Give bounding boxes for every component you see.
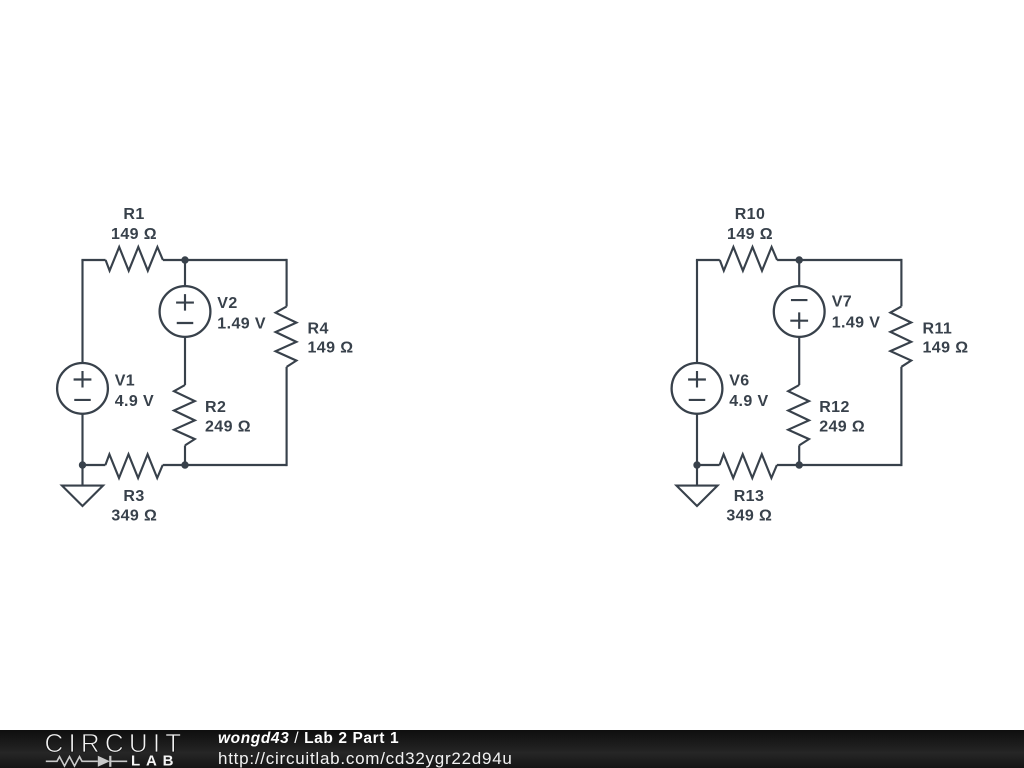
svg-text:149 Ω: 149 Ω [727, 226, 773, 243]
wire mid lower [798, 445, 800, 465]
footer url line [218, 749, 513, 768]
wire left upper [696, 260, 698, 363]
logo diode [98, 755, 110, 766]
node dot bottom-mid [181, 461, 188, 468]
voltage source V2 [160, 286, 211, 337]
CircuitLab logo [44, 731, 184, 768]
voltage source V1 [57, 363, 108, 414]
node dot top [181, 256, 188, 263]
wire top rail right of R10 [777, 259, 901, 261]
svg-text:249 Ω: 249 Ω [819, 419, 865, 436]
svg-text:4.9 V: 4.9 V [115, 393, 154, 410]
footer bar [0, 730, 1024, 768]
resistor R13 [720, 454, 777, 478]
node dot bottom-mid [796, 461, 803, 468]
wire top-left horizontal [697, 260, 720, 261]
wire right upper [286, 260, 287, 307]
wire bottom rail right of R3 [163, 464, 287, 466]
svg-text:249 Ω: 249 Ω [205, 419, 251, 436]
wire right upper [900, 260, 901, 306]
svg-text:V7: V7 [832, 294, 852, 311]
resistor R4 [276, 307, 297, 367]
ground [62, 465, 103, 506]
wire top-left horizontal [83, 260, 106, 261]
svg-text:R2: R2 [205, 399, 226, 416]
svg-text:V2: V2 [217, 295, 237, 312]
svg-text:V6: V6 [729, 373, 749, 390]
svg-text:LAB: LAB [131, 752, 179, 768]
resistor R11 [890, 306, 911, 366]
wire mid between V2 and R2 [184, 337, 186, 385]
wire bottom rail left stub [701, 464, 720, 466]
node dot top [796, 256, 803, 263]
svg-text:349 Ω: 349 Ω [111, 508, 157, 525]
svg-text:R12: R12 [819, 399, 850, 416]
wire left lower [696, 414, 698, 465]
svg-text:149 Ω: 149 Ω [923, 340, 969, 357]
svg-text:4.9 V: 4.9 V [729, 393, 768, 410]
wire bottom rail right of R13 [777, 464, 902, 466]
svg-text:R11: R11 [923, 321, 953, 338]
ground [677, 465, 718, 506]
svg-text:R1: R1 [123, 206, 144, 223]
left circuit [57, 206, 353, 525]
wire right lower [900, 367, 901, 465]
logo resistor-diode line [46, 756, 127, 765]
wire left upper [81, 260, 83, 363]
node dot bottom-left [693, 461, 700, 468]
resistor R3 [105, 454, 162, 478]
wire mid branch upper [184, 260, 186, 286]
wire bottom rail left stub [86, 464, 105, 466]
svg-text:R4: R4 [308, 321, 329, 338]
footer title line [218, 730, 399, 748]
svg-text:1.49 V: 1.49 V [217, 315, 266, 332]
wire mid between V7 and R12 [798, 337, 800, 385]
svg-text:R3: R3 [123, 488, 144, 505]
node dot bottom-left [79, 461, 86, 468]
svg-text:R13: R13 [734, 488, 765, 505]
wire mid lower [184, 445, 186, 465]
svg-text:149 Ω: 149 Ω [111, 226, 157, 243]
wire top rail right of R1 [163, 259, 287, 261]
svg-text:1.49 V: 1.49 V [832, 314, 881, 331]
svg-text:149 Ω: 149 Ω [308, 340, 354, 357]
voltage source V6 [672, 363, 723, 414]
svg-text:R10: R10 [735, 206, 766, 223]
svg-text:V1: V1 [115, 373, 135, 390]
resistor R2 [174, 385, 195, 445]
wire left lower [81, 414, 83, 465]
right circuit [672, 206, 969, 525]
resistor R1 [106, 247, 163, 271]
voltage source V7 [774, 286, 825, 337]
svg-text:349 Ω: 349 Ω [726, 508, 772, 525]
wire right lower [286, 367, 287, 465]
resistor R12 [788, 385, 809, 445]
resistor R10 [720, 247, 777, 271]
wire mid branch upper [798, 260, 800, 286]
